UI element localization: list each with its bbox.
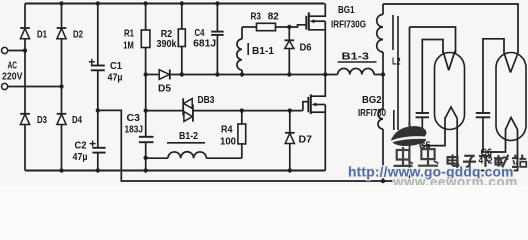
- inductor B1-2: [167, 131, 206, 158]
- resistor R1 1M: [123, 4, 150, 75]
- watermark url blue: [348, 164, 514, 179]
- node top rail / C4 junction: [215, 1, 219, 5]
- svg-text:C3: C3: [127, 113, 141, 124]
- wire left bridge branch (D1/D3 column): [24, 4, 26, 171]
- svg-text:L2: L2: [392, 57, 401, 68]
- svg-text:D6: D6: [300, 43, 312, 54]
- node D4 / bottom rail: [59, 168, 63, 172]
- lamp tube 2: [496, 53, 526, 141]
- watermark bug characters: [394, 146, 439, 166]
- svg-text:183J: 183J: [125, 125, 144, 136]
- node top rail / R1 junction: [143, 1, 147, 5]
- resistor R3 82: [242, 12, 289, 31]
- terminal AC upper: [2, 47, 26, 53]
- node D7/bottom rail: [288, 168, 292, 172]
- filament lamp1 bottom: [445, 107, 457, 118]
- transistor BG1: [289, 4, 366, 75]
- watermark bug hat logo: [391, 123, 426, 146]
- wire DB3 left segment: [146, 110, 183, 112]
- diode D5: [158, 70, 171, 95]
- node top rail / R2 junction: [180, 1, 184, 5]
- node L2 lower / return rail: [381, 179, 385, 183]
- svg-text:D4: D4: [72, 115, 82, 126]
- inductor L2 lower winding: [378, 75, 383, 182]
- svg-text:AC: AC: [8, 61, 18, 72]
- svg-text:1M: 1M: [123, 41, 134, 52]
- node bus/R2-D5: [180, 72, 184, 76]
- node D7/gate junction: [288, 108, 292, 112]
- svg-text:B1-3: B1-3: [342, 52, 370, 63]
- inductor L2: [377, 4, 401, 130]
- svg-text:BG1: BG1: [338, 5, 355, 16]
- node top rail / C1 junction: [96, 1, 100, 5]
- diode D7: [285, 111, 312, 171]
- wire bottom negative rail: [25, 170, 325, 172]
- svg-text:www.eeworm.com: www.eeworm.com: [392, 174, 518, 185]
- wire midpoint tap to lamp return rail: [98, 27, 410, 181]
- inductor B1-1: [237, 27, 274, 75]
- node AC lower / bridge junction: [59, 84, 63, 88]
- svg-text:B1-2: B1-2: [179, 131, 198, 142]
- capacitor C2 47u: [73, 141, 106, 164]
- terminal AC lower: [2, 83, 62, 89]
- svg-text:681J: 681J: [193, 39, 216, 50]
- capacitor C6 472: [476, 113, 493, 166]
- svg-text:D7: D7: [299, 135, 313, 146]
- svg-text:C1: C1: [110, 61, 122, 72]
- svg-text:390k: 390k: [157, 39, 177, 50]
- wire C5 bottom to lamp1 lower left pin: [422, 117, 445, 145]
- capacitor C4 681J: [193, 4, 223, 75]
- svg-text:82: 82: [268, 12, 279, 23]
- node top rail / D2 junction: [59, 1, 63, 5]
- svg-text:220V: 220V: [2, 72, 23, 83]
- resistor R4 100: [220, 111, 246, 159]
- diode D1: [20, 28, 47, 41]
- lamp tube 1: [435, 53, 465, 130]
- svg-text:C4: C4: [195, 28, 205, 39]
- svg-text:47µ: 47µ: [73, 152, 88, 163]
- wire oscillator bus: [146, 74, 383, 76]
- node bus/B1-1: [240, 72, 244, 76]
- watermark text dianzi xiazaizhan: [448, 155, 527, 168]
- wire C6 bottom to lamp2 lower left pin: [483, 117, 506, 152]
- capacitor C1 47u: [89, 59, 123, 84]
- node bus/BG1 source: [323, 72, 327, 76]
- node bus/R1: [144, 72, 148, 76]
- svg-text:BG2: BG2: [362, 95, 382, 106]
- wire lamp2 upper left pin link: [483, 39, 504, 113]
- node AC upper / bridge junction: [23, 48, 27, 52]
- diode D2: [57, 28, 84, 41]
- resistor R2 390k: [157, 4, 186, 75]
- svg-text:100: 100: [220, 137, 236, 148]
- svg-text:C2: C2: [75, 141, 87, 152]
- node DB3/R4 junction: [240, 108, 244, 112]
- node bus/L2 tap: [381, 72, 385, 76]
- svg-text:R3: R3: [251, 12, 262, 23]
- svg-text:D1: D1: [37, 30, 47, 41]
- svg-text:DB3: DB3: [198, 95, 215, 106]
- wire top positive rail: [25, 3, 325, 5]
- svg-text:R1: R1: [124, 29, 134, 40]
- svg-text:IRFI730G: IRFI730G: [331, 20, 366, 31]
- diode D6: [285, 27, 312, 75]
- wire B1-2 row: [146, 157, 242, 159]
- capacitor C3 183J: [125, 113, 154, 142]
- node R3/D6/gate junction: [287, 25, 291, 29]
- node bus/C4: [215, 72, 219, 76]
- node C1/C2 midpoint: [96, 108, 100, 112]
- wire lamp1 upper left pin link: [422, 40, 443, 114]
- svg-text:D5: D5: [158, 84, 171, 95]
- svg-text:B1-1: B1-1: [252, 46, 274, 57]
- inductor B1-3: [338, 52, 377, 75]
- node C3/bottom rail: [144, 168, 148, 172]
- wire DB3 to R4/gate: [193, 110, 303, 112]
- diac DB3: [183, 95, 215, 122]
- filament lamp2 bottom: [506, 118, 518, 130]
- watermark url gray: [392, 174, 518, 189]
- node C2 / bottom rail: [96, 168, 100, 172]
- diode D3: [20, 114, 47, 126]
- capacitor C5 472: [416, 113, 431, 152]
- wire lamp1 upper right pin link: [410, 27, 456, 53]
- node bus/D6: [287, 72, 291, 76]
- wire second bridge branch (D2/D4 column): [61, 4, 63, 171]
- svg-text:R4: R4: [221, 125, 233, 136]
- label AC 220V: [2, 61, 23, 83]
- wire C3 branch: [145, 75, 147, 171]
- filament lamp1 top: [443, 51, 455, 70]
- svg-text:47µ: 47µ: [108, 73, 123, 84]
- wire lamp1 lower right pin to lamp2: [457, 118, 517, 170]
- node C3/B1-2 junction: [144, 156, 148, 160]
- diode D4: [57, 114, 83, 126]
- node C3/DB3 junction: [144, 108, 148, 112]
- transistor BG2: [303, 75, 386, 171]
- svg-text:D3: D3: [37, 115, 47, 126]
- filament lamp2 top: [504, 53, 518, 73]
- wire C1-C2 column: [97, 4, 99, 171]
- wire lamp top feed: [383, 4, 518, 53]
- svg-text:D2: D2: [73, 30, 83, 41]
